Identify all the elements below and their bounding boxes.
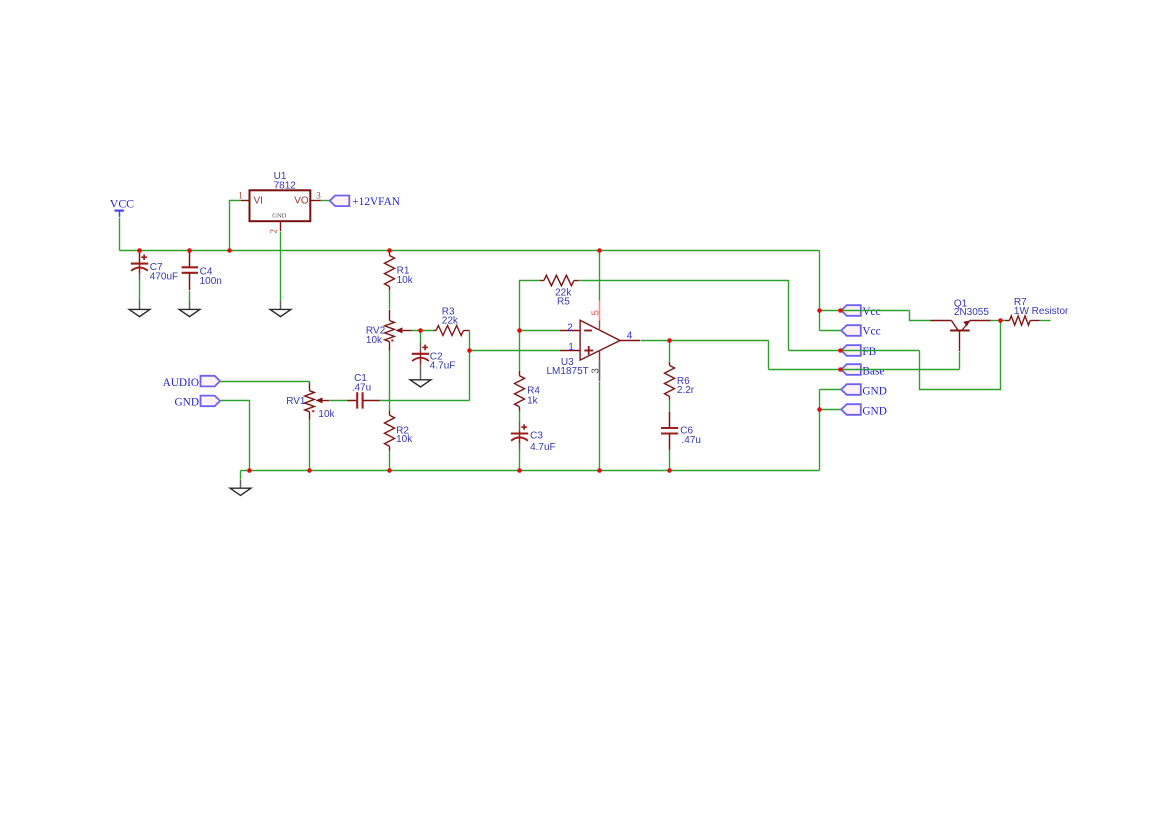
wire U1 pin2 to ground — [280, 232, 282, 302]
svg-text:FB: FB — [862, 346, 876, 358]
svg-text:5: 5 — [590, 310, 601, 316]
wire GND labels to bottom bus — [819, 390, 821, 471]
wire U1 pin3 to +12VFAN label — [321, 200, 330, 202]
svg-text:3: 3 — [591, 368, 602, 374]
U3 pin 1 lead — [560, 350, 580, 352]
wire C4 to ground — [189, 291, 191, 302]
svg-text:7812: 7812 — [274, 181, 297, 192]
potentiometer RV1 10k — [305, 383, 330, 420]
svg-text:VO: VO — [294, 196, 309, 207]
wire output to R6 — [669, 341, 671, 362]
node pin1 node — [467, 348, 472, 353]
hierarchical label GND 2 shape — [841, 404, 861, 415]
node U3 pin5 bus — [597, 248, 602, 253]
svg-text:2: 2 — [567, 322, 573, 333]
ground under U1 — [270, 301, 291, 317]
svg-text:1: 1 — [238, 191, 243, 201]
svg-text:1k: 1k — [527, 396, 539, 407]
svg-text:VI: VI — [254, 196, 263, 207]
svg-text:VCC: VCC — [110, 197, 134, 211]
svg-text:10k: 10k — [397, 275, 414, 286]
svg-text:.47u: .47u — [682, 435, 701, 446]
svg-text:2N3055: 2N3055 — [954, 307, 989, 318]
capacitor C7 470uF symbol — [131, 252, 148, 279]
wire R2 to bottom bus — [389, 451, 391, 471]
svg-text:10k: 10k — [396, 434, 413, 445]
svg-text:+12VFAN: +12VFAN — [352, 196, 400, 208]
ground under C7 — [129, 301, 150, 317]
VCC power flag — [115, 211, 124, 217]
wire R5 to FB corner — [579, 281, 789, 351]
U3 pin 2 lead — [560, 330, 580, 332]
svg-text:470uF: 470uF — [150, 271, 178, 282]
node GND drop — [817, 407, 822, 412]
svg-text:Base: Base — [862, 366, 884, 378]
wire VCC drop — [119, 218, 121, 251]
wire to GND1 label — [820, 389, 842, 391]
svg-text:4.7uF: 4.7uF — [530, 442, 556, 453]
wire C3 to bottom bus — [519, 450, 521, 471]
ground bottom left — [230, 480, 251, 496]
resistor R7 1W — [1005, 316, 1039, 325]
wire R6 to C6 — [669, 400, 671, 412]
capacitor C3 symbol — [511, 422, 528, 450]
hierarchical label Vcc 1 shape — [841, 305, 861, 316]
wire R4 to C3 — [519, 411, 521, 423]
wire FB line through label — [789, 350, 920, 352]
U3 pin 4 lead — [620, 340, 640, 342]
node U1 pin1 bus — [227, 248, 232, 253]
svg-text:2: 2 — [269, 229, 279, 234]
capacitor C1 .47u — [347, 392, 380, 408]
svg-text:Vcc: Vcc — [862, 326, 880, 338]
wire R3 down to C1 line — [469, 331, 471, 401]
wire C6 to bottom bus — [669, 450, 671, 471]
U1 pin 2 lead — [280, 221, 282, 231]
svg-text:LM1875T: LM1875T — [547, 366, 589, 377]
node U3 pin3 bus — [597, 468, 602, 473]
svg-text:R5: R5 — [557, 296, 570, 307]
node C7 top — [137, 248, 142, 253]
wire output corner to Base level — [768, 341, 770, 370]
node U3 pin2 node — [517, 328, 522, 333]
node RV1 bus — [307, 468, 312, 473]
wire top bus to U3 pin5 — [599, 251, 601, 301]
wire GND label to bottom bus — [221, 401, 250, 471]
ground under C4 — [179, 301, 200, 317]
hierarchical label Vcc 2 shape — [841, 325, 861, 336]
svg-text:GND: GND — [862, 385, 886, 397]
wire C7 to ground — [139, 280, 141, 302]
wire Base line through label — [769, 369, 960, 371]
svg-text:1W Resistor: 1W Resistor — [1014, 306, 1069, 317]
potentiometer RV2 10k — [385, 310, 412, 351]
svg-text:100n: 100n — [200, 276, 222, 287]
wire pin2 junction up to R5 — [520, 281, 541, 331]
resistor R1 10k — [385, 251, 395, 291]
node C3 bus — [517, 468, 522, 473]
op-amp U3 LM1875T — [580, 320, 620, 360]
svg-text:10k: 10k — [318, 409, 335, 420]
wire top bus down to Vcc labels — [819, 251, 821, 331]
wire AUDIO to RV1 — [221, 382, 310, 384]
U1 pin 3 lead — [311, 200, 321, 202]
wire down to R4 — [519, 331, 521, 371]
svg-text:AUDIO: AUDIO — [163, 377, 199, 389]
hierarchical label AUDIO shape — [201, 376, 221, 387]
capacitor C2 symbol — [412, 343, 429, 371]
wire U3 output — [641, 340, 769, 342]
wire RV1 bottom to bus — [309, 420, 311, 471]
wire junction to C2 — [420, 331, 422, 343]
svg-text:10k: 10k — [366, 335, 383, 346]
node RV2 wiper node — [418, 328, 423, 333]
svg-text:RV1: RV1 — [286, 396, 306, 407]
hierarchical label GND 1 shape — [841, 384, 861, 395]
hierarchical label GND shape — [201, 396, 221, 407]
resistor R3 22k — [434, 326, 470, 336]
node Vcc1 label — [838, 308, 843, 313]
U3 pin 3 lead — [599, 351, 601, 382]
node Base label — [838, 367, 843, 372]
node FB label — [838, 348, 843, 353]
wire U1 pin1 to bus — [230, 201, 241, 251]
wire bottom ground bus — [241, 470, 820, 472]
node R1 top — [387, 248, 392, 253]
svg-text:1: 1 — [568, 342, 574, 353]
hierarchical label Base shape — [841, 364, 861, 375]
resistor R5 22k — [540, 275, 578, 285]
wire R7 output stub — [1040, 320, 1051, 322]
capacitor C4 — [182, 251, 198, 291]
U3 pin 5 lead — [599, 300, 601, 331]
ground under C2 — [420, 370, 422, 371]
capacitor C6 .47u — [661, 412, 678, 450]
wire C7 stub — [139, 251, 141, 253]
svg-text:4.7uF: 4.7uF — [430, 361, 456, 372]
wire to GND2 label — [820, 409, 842, 411]
wire RV1 wiper to C1 — [330, 400, 348, 402]
svg-text:3: 3 — [316, 191, 321, 201]
wire to Vcc2 label — [820, 330, 842, 332]
node R2 bus — [387, 468, 392, 473]
wire Base to Q1 base lead — [959, 352, 961, 370]
svg-text:4: 4 — [627, 331, 633, 342]
wire Vcc1 line through label — [820, 310, 910, 312]
wire Q1 emitter to R7 — [991, 320, 1006, 322]
svg-text:GND: GND — [862, 405, 886, 417]
svg-text:C3: C3 — [530, 431, 543, 442]
resistor R4 1k — [515, 371, 525, 411]
wire RV2 bottom to R2 — [389, 351, 391, 412]
node emitter FB node — [998, 318, 1003, 323]
wire Vcc corner to Q1 collector — [910, 311, 931, 321]
hierarchical label +12VFAN shape — [330, 196, 350, 207]
wire junction to U3 pin1 — [470, 350, 561, 352]
wire C1 to R3 corner — [380, 400, 470, 402]
svg-text:GND: GND — [272, 212, 286, 219]
node Vcc drop — [817, 308, 822, 313]
svg-text:GND: GND — [175, 397, 199, 409]
regulator U1 7812 body — [250, 190, 311, 221]
resistor R2 10k — [385, 411, 395, 450]
transistor Q1 2N3055 — [931, 321, 991, 352]
wire top supply bus — [120, 250, 820, 252]
wire RV2 wiper to R3 — [412, 330, 434, 332]
hierarchical label FB shape — [841, 345, 861, 356]
wire U3 pin3 to bottom bus — [599, 382, 601, 471]
node C6 bus — [667, 468, 672, 473]
svg-text:.47u: .47u — [352, 382, 371, 393]
wire junction to U3 pin2 — [520, 330, 561, 332]
wire FB to R7 node — [920, 321, 1001, 390]
node C4 top — [187, 248, 192, 253]
node output node — [667, 338, 672, 343]
wire bus to ground — [240, 471, 242, 480]
resistor R6 2.2r — [665, 362, 675, 400]
svg-text:2.2r: 2.2r — [677, 385, 695, 396]
node GND input bus — [247, 468, 252, 473]
svg-text:Vcc: Vcc — [862, 306, 880, 318]
svg-text:22k: 22k — [442, 315, 459, 326]
U1 pin 1 lead — [241, 200, 250, 202]
ground symbol under C2 — [410, 371, 431, 387]
wire R1 to RV2 — [389, 291, 391, 310]
